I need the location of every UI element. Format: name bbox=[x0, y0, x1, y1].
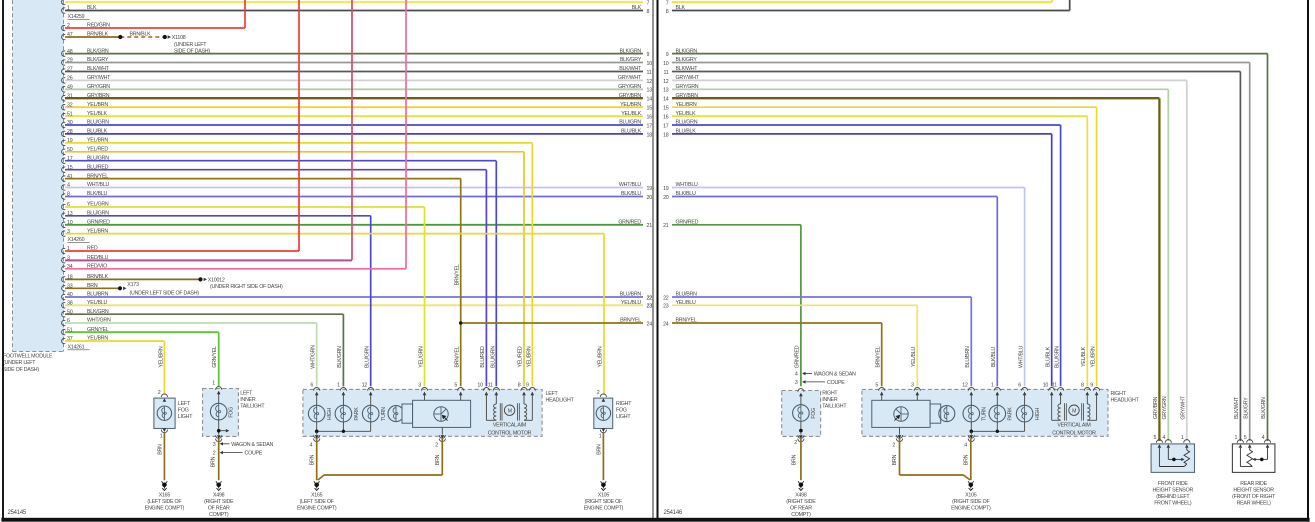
svg-text:BRN/YEL: BRN/YEL bbox=[454, 346, 460, 367]
svg-text:27: 27 bbox=[67, 67, 73, 73]
svg-text:5: 5 bbox=[1244, 435, 1247, 441]
svg-text:19: 19 bbox=[67, 138, 73, 144]
svg-text:1: 1 bbox=[67, 6, 70, 12]
svg-text:GRY/GRN: GRY/GRN bbox=[1162, 396, 1168, 419]
svg-text:(UNDER LEFT SIDE OF DASH): (UNDER LEFT SIDE OF DASH) bbox=[130, 291, 200, 297]
svg-text:(RIGHT SIDE OF: (RIGHT SIDE OF bbox=[952, 499, 990, 505]
svg-text:X1108: X1108 bbox=[172, 35, 186, 41]
svg-text:YEL/BLU: YEL/BLU bbox=[87, 300, 107, 306]
svg-text:LIGHT: LIGHT bbox=[616, 414, 631, 420]
svg-text:BRN: BRN bbox=[435, 454, 441, 465]
svg-text:GRN/YEL: GRN/YEL bbox=[212, 346, 218, 368]
svg-text:(FRONT OF RIGHT: (FRONT OF RIGHT bbox=[1232, 494, 1276, 500]
svg-text:X165: X165 bbox=[159, 493, 171, 499]
svg-text:18: 18 bbox=[647, 132, 653, 138]
svg-text:X105: X105 bbox=[598, 493, 610, 499]
svg-text:1: 1 bbox=[599, 434, 602, 440]
svg-text:YEL/BRN: YEL/BRN bbox=[87, 102, 108, 108]
svg-text:WAGON & SEDAN: WAGON & SEDAN bbox=[231, 442, 273, 448]
svg-text:FRONT RIDE: FRONT RIDE bbox=[1158, 481, 1188, 487]
svg-text:(LEFT SIDE OF: (LEFT SIDE OF bbox=[300, 499, 335, 505]
svg-text:34: 34 bbox=[67, 264, 73, 270]
svg-text:1: 1 bbox=[991, 383, 994, 389]
svg-text:47: 47 bbox=[67, 32, 73, 38]
svg-text:GRN/YEL: GRN/YEL bbox=[87, 327, 109, 333]
svg-text:TURN: TURN bbox=[381, 407, 387, 421]
svg-text:COUPE: COUPE bbox=[827, 380, 845, 386]
svg-text:3: 3 bbox=[911, 383, 914, 389]
svg-text:BLU/BLK: BLU/BLK bbox=[676, 129, 697, 135]
svg-text:BLK/WHT: BLK/WHT bbox=[619, 66, 642, 72]
svg-text:28: 28 bbox=[67, 129, 73, 135]
svg-text:BLK/BLU: BLK/BLU bbox=[676, 191, 696, 197]
svg-text:30: 30 bbox=[67, 120, 73, 126]
svg-text:HIGH: HIGH bbox=[1035, 407, 1041, 420]
svg-text:HEIGHT SENSOR: HEIGHT SENSOR bbox=[1233, 488, 1274, 494]
svg-text:WHT/BLU: WHT/BLU bbox=[87, 182, 110, 188]
svg-text:4: 4 bbox=[964, 442, 967, 448]
svg-text:4: 4 bbox=[1262, 435, 1265, 441]
svg-text:BLU/BRN: BLU/BRN bbox=[965, 346, 971, 368]
svg-text:YEL/BLK: YEL/BLK bbox=[621, 111, 641, 117]
svg-text:GRY/BRN: GRY/BRN bbox=[676, 93, 699, 99]
svg-text:BLK: BLK bbox=[632, 5, 642, 11]
svg-text:12: 12 bbox=[962, 383, 968, 389]
svg-text:5: 5 bbox=[1153, 435, 1156, 441]
svg-text:YEL/RED: YEL/RED bbox=[518, 346, 524, 367]
svg-text:GRN/RED: GRN/RED bbox=[618, 220, 641, 226]
svg-text:BRN/YEL: BRN/YEL bbox=[87, 173, 108, 179]
svg-text:BLK/WHT: BLK/WHT bbox=[676, 66, 699, 72]
svg-text:BLU/BLK: BLU/BLK bbox=[1045, 346, 1051, 367]
svg-text:33: 33 bbox=[67, 284, 73, 290]
svg-text:BRN/YEL: BRN/YEL bbox=[875, 346, 881, 367]
svg-text:18: 18 bbox=[663, 132, 669, 138]
svg-text:SIDE OF DASH): SIDE OF DASH) bbox=[174, 48, 210, 54]
svg-text:15: 15 bbox=[663, 106, 669, 112]
svg-text:RED/GRN: RED/GRN bbox=[87, 23, 110, 29]
svg-text:4: 4 bbox=[67, 183, 70, 189]
svg-text:9: 9 bbox=[666, 52, 669, 58]
svg-text:TAILLIGHT: TAILLIGHT bbox=[240, 404, 265, 410]
svg-text:32: 32 bbox=[67, 102, 73, 108]
svg-text:7: 7 bbox=[647, 0, 650, 6]
svg-text:23: 23 bbox=[663, 304, 669, 310]
svg-text:22: 22 bbox=[647, 295, 653, 301]
svg-text:BRN/YEL: BRN/YEL bbox=[620, 318, 641, 324]
svg-text:BLK: BLK bbox=[676, 5, 686, 11]
svg-text:10: 10 bbox=[647, 61, 653, 67]
svg-text:M: M bbox=[508, 408, 512, 414]
svg-text:4: 4 bbox=[310, 442, 313, 448]
svg-text:6: 6 bbox=[310, 383, 313, 389]
svg-text:1: 1 bbox=[1181, 435, 1184, 441]
svg-text:INNER: INNER bbox=[240, 397, 256, 403]
svg-text:8: 8 bbox=[518, 383, 521, 389]
svg-text:(RIGHT SIDE OF: (RIGHT SIDE OF bbox=[585, 499, 623, 505]
svg-text:WHT/GRN: WHT/GRN bbox=[311, 345, 317, 369]
svg-text:23: 23 bbox=[647, 304, 653, 310]
svg-text:14: 14 bbox=[663, 97, 669, 103]
svg-text:GRY/GRN: GRY/GRN bbox=[676, 84, 699, 90]
svg-text:22: 22 bbox=[663, 295, 669, 301]
svg-text:X165: X165 bbox=[311, 493, 323, 499]
svg-text:3: 3 bbox=[213, 442, 216, 448]
svg-text:7: 7 bbox=[666, 0, 669, 6]
svg-text:GRY/BRN: GRY/BRN bbox=[87, 93, 110, 99]
svg-text:38: 38 bbox=[67, 301, 73, 307]
svg-text:ENGINE COMPT): ENGINE COMPT) bbox=[951, 505, 991, 511]
svg-text:6: 6 bbox=[67, 202, 70, 208]
svg-text:4: 4 bbox=[795, 371, 798, 377]
svg-text:X173: X173 bbox=[127, 282, 139, 288]
svg-text:ENGINE COMPT): ENGINE COMPT) bbox=[297, 505, 337, 511]
svg-text:REAR RIDE: REAR RIDE bbox=[1240, 481, 1267, 487]
svg-text:(LEFT SIDE OF: (LEFT SIDE OF bbox=[147, 499, 182, 505]
svg-text:11: 11 bbox=[488, 383, 493, 389]
svg-text:BLK/GRN: BLK/GRN bbox=[676, 48, 698, 54]
svg-text:24: 24 bbox=[647, 321, 653, 327]
svg-text:254146: 254146 bbox=[664, 510, 683, 516]
svg-text:13: 13 bbox=[647, 88, 653, 94]
svg-text:GRN/RED: GRN/RED bbox=[795, 345, 801, 368]
svg-text:15: 15 bbox=[67, 165, 73, 171]
svg-text:BLU/BLK: BLU/BLK bbox=[87, 129, 108, 135]
svg-text:BLU/BLK: BLU/BLK bbox=[621, 129, 642, 135]
svg-text:COMPT): COMPT) bbox=[791, 512, 811, 518]
svg-text:PARK: PARK bbox=[1008, 407, 1014, 421]
svg-text:BRN: BRN bbox=[310, 454, 316, 465]
svg-text:FRONT WHEEL): FRONT WHEEL) bbox=[1154, 500, 1192, 506]
svg-text:X10012: X10012 bbox=[208, 278, 225, 284]
svg-text:HIGH: HIGH bbox=[327, 407, 333, 420]
svg-text:YEL/BLK: YEL/BLK bbox=[87, 111, 107, 117]
svg-text:BLU/BRN: BLU/BRN bbox=[676, 292, 698, 298]
svg-text:TURN: TURN bbox=[982, 407, 988, 421]
svg-text:14: 14 bbox=[647, 97, 653, 103]
svg-text:YEL/BLK: YEL/BLK bbox=[1081, 346, 1087, 366]
svg-text:2: 2 bbox=[794, 440, 797, 446]
svg-text:BLU/GRN: BLU/GRN bbox=[87, 155, 109, 161]
svg-text:5: 5 bbox=[454, 383, 457, 389]
svg-text:BLK/GRN: BLK/GRN bbox=[1261, 397, 1267, 419]
svg-text:BLK/WHT: BLK/WHT bbox=[87, 66, 110, 72]
svg-text:20: 20 bbox=[663, 195, 669, 201]
svg-text:BRN: BRN bbox=[892, 454, 898, 465]
svg-text:1: 1 bbox=[1234, 435, 1237, 441]
svg-text:YEL/BLK: YEL/BLK bbox=[676, 111, 696, 117]
svg-text:3: 3 bbox=[67, 255, 70, 261]
svg-text:6: 6 bbox=[67, 318, 70, 324]
svg-text:6: 6 bbox=[1018, 383, 1021, 389]
svg-text:49: 49 bbox=[67, 85, 73, 91]
svg-text:13: 13 bbox=[67, 211, 73, 217]
svg-text:18: 18 bbox=[67, 275, 73, 281]
svg-text:BRN/YEL: BRN/YEL bbox=[454, 264, 460, 285]
svg-text:10: 10 bbox=[67, 220, 73, 226]
svg-text:GRY/BRN: GRY/BRN bbox=[619, 93, 642, 99]
svg-text:X498: X498 bbox=[795, 493, 807, 499]
svg-text:(UNDER LEFT: (UNDER LEFT bbox=[174, 42, 207, 48]
svg-text:FOG: FOG bbox=[229, 407, 235, 418]
svg-text:16: 16 bbox=[647, 115, 653, 121]
svg-text:10: 10 bbox=[477, 383, 483, 389]
svg-text:29: 29 bbox=[67, 58, 73, 64]
svg-text:1: 1 bbox=[212, 380, 215, 386]
svg-text:BLU/GRN: BLU/GRN bbox=[619, 120, 641, 126]
svg-text:8: 8 bbox=[666, 9, 669, 15]
svg-text:BLK/GRY: BLK/GRY bbox=[1243, 397, 1249, 419]
svg-text:RIGHT: RIGHT bbox=[616, 401, 632, 407]
svg-text:YEL/BLU: YEL/BLU bbox=[621, 300, 641, 306]
svg-text:YEL/BRN: YEL/BRN bbox=[1090, 346, 1096, 367]
svg-text:GRY/WHT: GRY/WHT bbox=[87, 75, 111, 81]
svg-text:BRN/YEL: BRN/YEL bbox=[676, 318, 697, 324]
svg-text:RIGHT: RIGHT bbox=[822, 390, 838, 396]
svg-text:YEL/BRN: YEL/BRN bbox=[87, 336, 108, 342]
svg-text:RED/BLU: RED/BLU bbox=[87, 255, 109, 261]
svg-text:BLU/GRN: BLU/GRN bbox=[87, 211, 109, 217]
svg-text:21: 21 bbox=[647, 223, 653, 229]
svg-text:OF REAR: OF REAR bbox=[208, 505, 230, 511]
svg-text:1: 1 bbox=[67, 246, 70, 252]
svg-text:BLU/RED: BLU/RED bbox=[87, 164, 109, 170]
svg-text:12: 12 bbox=[362, 383, 368, 389]
svg-text:INNER: INNER bbox=[822, 397, 838, 403]
svg-text:RIGHT: RIGHT bbox=[1111, 391, 1127, 397]
svg-text:(RIGHT SIDE: (RIGHT SIDE bbox=[204, 499, 234, 505]
svg-text:GRY/WHT: GRY/WHT bbox=[676, 75, 700, 81]
svg-text:YEL/BLU: YEL/BLU bbox=[911, 347, 917, 367]
svg-text:2: 2 bbox=[597, 390, 600, 396]
svg-text:(UNDER LEFT: (UNDER LEFT bbox=[3, 360, 36, 366]
svg-text:BLK/GRY: BLK/GRY bbox=[620, 57, 642, 63]
svg-text:BRN: BRN bbox=[211, 456, 217, 467]
svg-text:50: 50 bbox=[67, 309, 73, 315]
svg-text:YEL/RED: YEL/RED bbox=[87, 147, 108, 153]
svg-text:5: 5 bbox=[875, 383, 878, 389]
svg-text:YEL/BRN: YEL/BRN bbox=[620, 102, 641, 108]
svg-text:YEL/BRN: YEL/BRN bbox=[526, 346, 532, 367]
svg-text:RED: RED bbox=[87, 246, 98, 252]
svg-text:11: 11 bbox=[664, 70, 669, 76]
svg-text:BRN: BRN bbox=[964, 454, 970, 465]
svg-text:12: 12 bbox=[663, 79, 669, 85]
svg-text:16: 16 bbox=[663, 115, 669, 121]
svg-text:BLU/GRN: BLU/GRN bbox=[364, 346, 370, 368]
svg-text:17: 17 bbox=[663, 123, 669, 129]
svg-text:GRY/BRN: GRY/BRN bbox=[1153, 396, 1159, 419]
svg-text:REAR WHEEL): REAR WHEEL) bbox=[1237, 500, 1272, 506]
svg-text:PARK: PARK bbox=[354, 407, 360, 421]
svg-text:LEFT: LEFT bbox=[240, 390, 253, 396]
svg-text:TAILLIGHT: TAILLIGHT bbox=[822, 404, 847, 410]
svg-text:OF REAR: OF REAR bbox=[790, 505, 812, 511]
svg-text:GRN/RED: GRN/RED bbox=[87, 220, 110, 226]
svg-text:LEFT: LEFT bbox=[546, 391, 559, 397]
svg-text:BLK/GRN: BLK/GRN bbox=[87, 48, 109, 54]
svg-text:GRY/WHT: GRY/WHT bbox=[1181, 395, 1187, 419]
svg-text:YEL/BRN: YEL/BRN bbox=[87, 138, 108, 144]
svg-text:GRY/GRN: GRY/GRN bbox=[87, 84, 110, 90]
svg-text:51: 51 bbox=[67, 327, 73, 333]
svg-text:BRN: BRN bbox=[87, 283, 98, 289]
svg-text:2: 2 bbox=[67, 23, 70, 29]
svg-text:BLK/BLU: BLK/BLU bbox=[621, 191, 641, 197]
svg-text:50: 50 bbox=[67, 147, 73, 153]
svg-text:2: 2 bbox=[435, 442, 438, 448]
svg-text:(BEHIND LEFT: (BEHIND LEFT bbox=[1156, 494, 1190, 500]
svg-text:ENGINE COMPT): ENGINE COMPT) bbox=[145, 505, 185, 511]
svg-text:YEL/BRN: YEL/BRN bbox=[87, 228, 108, 234]
svg-text:YEL/BRN: YEL/BRN bbox=[598, 346, 604, 367]
svg-text:(UNDER RIGHT SIDE OF DASH): (UNDER RIGHT SIDE OF DASH) bbox=[210, 284, 283, 290]
svg-text:9: 9 bbox=[526, 383, 529, 389]
svg-text:YEL/BRN: YEL/BRN bbox=[158, 346, 164, 367]
svg-text:M: M bbox=[1072, 408, 1076, 414]
svg-text:VERTICAL AIM: VERTICAL AIM bbox=[1057, 423, 1090, 429]
svg-text:20: 20 bbox=[647, 195, 653, 201]
svg-text:11: 11 bbox=[1052, 383, 1057, 389]
svg-text:BLU/GRN: BLU/GRN bbox=[87, 120, 109, 126]
svg-text:8: 8 bbox=[1081, 383, 1084, 389]
svg-text:BLK/GRN: BLK/GRN bbox=[619, 48, 641, 54]
svg-text:BLK/GRY: BLK/GRY bbox=[87, 57, 109, 63]
svg-text:10: 10 bbox=[663, 61, 669, 67]
svg-text:ENGINE COMPT): ENGINE COMPT) bbox=[584, 505, 624, 511]
svg-text:CONTROL MOTOR: CONTROL MOTOR bbox=[488, 430, 532, 436]
svg-text:BLU/RED: BLU/RED bbox=[480, 346, 486, 368]
svg-text:11: 11 bbox=[647, 70, 652, 76]
svg-text:HEADLIGHT: HEADLIGHT bbox=[546, 397, 575, 403]
svg-text:8: 8 bbox=[647, 9, 650, 15]
svg-text:BRN: BRN bbox=[792, 454, 798, 465]
svg-text:BRN/BLK: BRN/BLK bbox=[130, 31, 152, 37]
svg-text:WHT/BLU: WHT/BLU bbox=[1018, 346, 1024, 369]
svg-text:37: 37 bbox=[67, 336, 73, 342]
svg-text:17: 17 bbox=[647, 123, 653, 129]
svg-text:YEL/BLU: YEL/BLU bbox=[676, 300, 696, 306]
svg-text:BLK/BLU: BLK/BLU bbox=[991, 347, 997, 367]
svg-text:GRY/WHT: GRY/WHT bbox=[618, 75, 642, 81]
svg-text:BLK: BLK bbox=[87, 5, 97, 11]
svg-text:40: 40 bbox=[67, 292, 73, 298]
svg-text:9: 9 bbox=[647, 52, 650, 58]
svg-text:GRY/GRN: GRY/GRN bbox=[618, 84, 641, 90]
svg-text:2: 2 bbox=[213, 451, 216, 457]
svg-text:BLK/WHT: BLK/WHT bbox=[1234, 396, 1240, 419]
svg-text:3: 3 bbox=[67, 229, 70, 235]
svg-text:BRN: BRN bbox=[596, 444, 602, 455]
svg-text:YEL/GRN: YEL/GRN bbox=[87, 202, 109, 208]
svg-text:2: 2 bbox=[892, 442, 895, 448]
svg-text:FOG: FOG bbox=[178, 408, 189, 414]
svg-text:8: 8 bbox=[67, 192, 70, 198]
svg-text:BRN/BLK: BRN/BLK bbox=[87, 274, 109, 280]
svg-text:254145: 254145 bbox=[8, 510, 27, 516]
svg-text:HEIGHT SENSOR: HEIGHT SENSOR bbox=[1153, 488, 1194, 494]
svg-text:YEL/BRN: YEL/BRN bbox=[676, 102, 697, 108]
svg-text:4: 4 bbox=[1162, 435, 1165, 441]
svg-text:GRN/RED: GRN/RED bbox=[676, 220, 699, 226]
svg-text:COUPE: COUPE bbox=[245, 451, 263, 457]
svg-text:X498: X498 bbox=[213, 493, 225, 499]
svg-text:10: 10 bbox=[1043, 383, 1049, 389]
svg-text:1: 1 bbox=[160, 434, 163, 440]
svg-text:BLU/GRN: BLU/GRN bbox=[676, 120, 698, 126]
svg-text:SIDE OF DASH): SIDE OF DASH) bbox=[3, 367, 39, 373]
svg-text:31: 31 bbox=[67, 93, 73, 99]
svg-text:BLU/BRN: BLU/BRN bbox=[87, 292, 109, 298]
svg-text:HEADLIGHT: HEADLIGHT bbox=[1111, 397, 1140, 403]
svg-text:BLK/GRN: BLK/GRN bbox=[87, 309, 109, 315]
svg-text:LIGHT: LIGHT bbox=[178, 414, 193, 420]
svg-text:BRN/BLK: BRN/BLK bbox=[87, 32, 109, 38]
svg-text:17: 17 bbox=[67, 156, 73, 162]
svg-text:41: 41 bbox=[67, 174, 73, 180]
svg-text:COMPT): COMPT) bbox=[209, 512, 229, 518]
svg-text:CONTROL MOTOR: CONTROL MOTOR bbox=[1052, 430, 1096, 436]
svg-text:12: 12 bbox=[647, 79, 653, 85]
svg-text:26: 26 bbox=[67, 76, 73, 82]
svg-text:48: 48 bbox=[67, 49, 73, 55]
svg-text:51: 51 bbox=[67, 111, 73, 117]
svg-text:YEL/GRN: YEL/GRN bbox=[418, 346, 424, 368]
svg-text:15: 15 bbox=[647, 106, 653, 112]
svg-text:BLU/GRN: BLU/GRN bbox=[490, 346, 496, 368]
svg-text:2: 2 bbox=[158, 390, 161, 396]
svg-text:BLU/GRN: BLU/GRN bbox=[1054, 346, 1060, 368]
svg-text:1: 1 bbox=[337, 383, 340, 389]
svg-text:FOG: FOG bbox=[811, 408, 817, 419]
svg-text:BRN: BRN bbox=[157, 444, 163, 455]
svg-text:13: 13 bbox=[663, 88, 669, 94]
svg-text:BLK/BLU: BLK/BLU bbox=[87, 191, 107, 197]
svg-text:FOOTWELL MODULE: FOOTWELL MODULE bbox=[3, 354, 53, 360]
svg-text:LEFT: LEFT bbox=[178, 401, 191, 407]
svg-text:X105: X105 bbox=[965, 493, 977, 499]
svg-text:3: 3 bbox=[795, 380, 798, 386]
svg-text:WHT/BLU: WHT/BLU bbox=[619, 182, 642, 188]
svg-text:24: 24 bbox=[663, 321, 669, 327]
svg-text:RED/VIO: RED/VIO bbox=[87, 264, 107, 270]
svg-text:3: 3 bbox=[418, 383, 421, 389]
svg-text:WHT/GRN: WHT/GRN bbox=[87, 318, 111, 324]
svg-text:(RIGHT SIDE: (RIGHT SIDE bbox=[786, 499, 816, 505]
svg-text:19: 19 bbox=[663, 186, 669, 192]
svg-text:BLK/GRY: BLK/GRY bbox=[676, 57, 698, 63]
svg-text:WHT/BLU: WHT/BLU bbox=[676, 182, 699, 188]
svg-text:BLU/BRN: BLU/BRN bbox=[620, 292, 642, 298]
svg-text:21: 21 bbox=[663, 223, 669, 229]
svg-text:FOG: FOG bbox=[616, 408, 627, 414]
svg-text:WAGON & SEDAN: WAGON & SEDAN bbox=[814, 371, 856, 377]
svg-text:VERTICAL AIM: VERTICAL AIM bbox=[493, 423, 526, 429]
svg-text:BLK/GRN: BLK/GRN bbox=[337, 346, 343, 368]
svg-text:9: 9 bbox=[1090, 383, 1093, 389]
svg-text:19: 19 bbox=[647, 186, 653, 192]
